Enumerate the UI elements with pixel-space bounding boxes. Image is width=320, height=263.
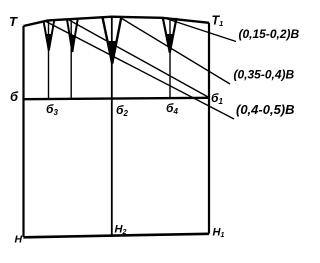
wire: hip line B-B1 <box>24 98 210 99</box>
svg-text:б: б <box>10 89 19 104</box>
wire: dart1 axis <box>48 22 50 100</box>
svg-text:Т: Т <box>9 14 18 29</box>
svg-text:б4: б4 <box>166 101 178 116</box>
svg-text:Т1: Т1 <box>212 14 224 29</box>
wire: leader line 3 <box>46 22 234 120</box>
wire: front dart axis <box>169 18 171 98</box>
wire: bottom hem line H-H1 <box>24 234 210 238</box>
svg-text:Н1: Н1 <box>213 227 225 240</box>
wire: right vertical T1-H1 <box>208 23 210 234</box>
dart D4 front <box>163 18 177 53</box>
wire: leader line 1 <box>166 19 236 42</box>
wire: waist top line T to T1 <box>24 17 210 26</box>
svg-text:Н2: Н2 <box>115 224 127 237</box>
dart D2 <box>67 19 78 52</box>
wire: middle vertical side seam <box>111 17 113 235</box>
svg-text:б3: б3 <box>46 102 58 117</box>
svg-text:б2: б2 <box>116 103 128 118</box>
wire: diagonal to B1 corner <box>69 20 209 98</box>
svg-text:(0,35-0,4)В: (0,35-0,4)В <box>234 68 295 82</box>
dart D3 side <box>103 17 122 63</box>
svg-text:б1: б1 <box>211 91 223 106</box>
svg-text:(0,15-0,2)В: (0,15-0,2)В <box>239 27 300 41</box>
dart D1 <box>44 20 55 51</box>
wire: leader line 2 <box>121 18 230 84</box>
svg-text:(0,4-0,5)В: (0,4-0,5)В <box>236 102 295 117</box>
wire: dart2 axis <box>70 20 72 99</box>
wire: left vertical TH <box>22 26 24 237</box>
svg-text:Н: Н <box>15 234 23 246</box>
